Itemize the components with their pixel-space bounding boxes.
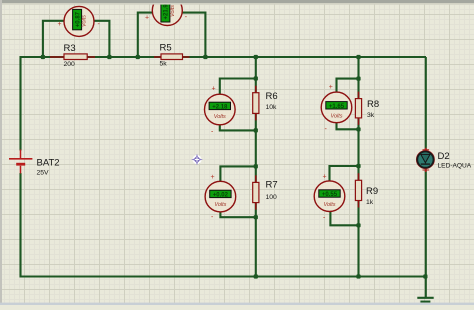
wire voltmeter M1 left terminal xyxy=(43,21,65,57)
resistor R9 xyxy=(355,173,378,207)
svg-text:Volts: Volts xyxy=(170,5,176,17)
wire voltmeter M5 top terminal xyxy=(337,79,359,93)
wire voltmeter M3 top terminal xyxy=(220,79,256,96)
junction R9 bottom node at (358.5,225.3) xyxy=(356,223,360,227)
wire voltmeter M4 top terminal xyxy=(220,166,255,182)
wire bottom rail xyxy=(21,275,426,277)
voltmeter M6 across R9 xyxy=(314,174,345,222)
svg-text:+2.18: +2.18 xyxy=(212,104,228,110)
svg-text:+21.9: +21.9 xyxy=(164,4,170,20)
svg-text:+1.65: +1.65 xyxy=(329,104,345,110)
wire top rail xyxy=(21,56,427,58)
svg-text:+: + xyxy=(211,174,215,181)
svg-text:Volts: Volts xyxy=(214,202,226,208)
svg-text:+: + xyxy=(212,86,216,93)
wire voltmeter M6 top terminal xyxy=(330,166,359,182)
junction top rail / R8 branch at (358.5,57) xyxy=(356,55,360,59)
LED D2 xyxy=(416,148,471,172)
wire R6 R7 column xyxy=(255,57,257,277)
svg-text:R5: R5 xyxy=(160,43,172,54)
svg-text:+0.02: +0.02 xyxy=(213,192,229,198)
svg-text:LED-AQUA: LED-AQUA xyxy=(438,162,472,169)
wire voltmeter M5 bottom terminal xyxy=(337,122,359,129)
svg-text:+0.55: +0.55 xyxy=(322,192,338,198)
voltmeter M1 across R3 xyxy=(58,6,101,36)
junction bottom rail / R9 branch at (358.5,276.5) xyxy=(356,274,360,278)
svg-text:1k: 1k xyxy=(366,199,374,206)
resistor R6 xyxy=(253,86,278,121)
wire battery column xyxy=(19,56,21,278)
junction top rail / R6 branch at (255.8,57) xyxy=(254,55,258,59)
junction R7 bottom node at (255.8,217.2) xyxy=(254,215,258,219)
svg-text:Volts: Volts xyxy=(82,15,88,27)
wire voltmeter M2 right terminal xyxy=(183,13,206,57)
voltmeter M5 across R8 xyxy=(321,84,352,133)
wire LED column xyxy=(425,57,427,298)
svg-text:R8: R8 xyxy=(367,99,379,110)
svg-text:Volts: Volts xyxy=(214,114,226,120)
svg-text:Volts: Volts xyxy=(330,113,342,119)
junction top rail / M2 left at (137.8,57) xyxy=(136,55,140,59)
svg-text:R9: R9 xyxy=(366,186,378,197)
resistor R3 xyxy=(50,43,95,68)
junction top rail / M1 right at (109.4,57) xyxy=(107,55,111,59)
voltmeter M2 across R5 xyxy=(145,0,188,26)
window edge bottom xyxy=(0,303,474,305)
svg-text:200: 200 xyxy=(64,61,76,68)
svg-text:25V: 25V xyxy=(37,170,50,177)
junction top rail / M1 left at (42.9,57) xyxy=(41,55,45,59)
wire R8 R9 column xyxy=(357,57,359,277)
svg-text:100: 100 xyxy=(266,194,278,201)
window edge left xyxy=(0,0,2,305)
svg-text:BAT2: BAT2 xyxy=(37,158,60,169)
resistor R8 xyxy=(355,92,379,125)
junction R8 top node at (358.5,78.6) xyxy=(356,77,360,81)
ground xyxy=(417,298,433,305)
wire voltmeter M2 left terminal xyxy=(138,13,153,57)
resistor R7 xyxy=(253,175,278,209)
junction bottom rail / LED branch at (425.5,276.5) xyxy=(423,274,427,278)
junction R8 bottom node at (358.5,129.3) xyxy=(356,127,360,131)
wire voltmeter M4 bottom terminal xyxy=(220,211,255,217)
svg-text:+: + xyxy=(323,174,327,181)
svg-text:10k: 10k xyxy=(266,104,278,111)
svg-text:+: + xyxy=(58,21,62,28)
svg-text:3k: 3k xyxy=(367,112,375,119)
wire voltmeter M6 bottom terminal xyxy=(330,211,358,225)
junction R6 top node at (255.8,78.5) xyxy=(254,76,258,80)
junction top rail / M2 right at (205.4,57) xyxy=(203,55,207,59)
window edge top xyxy=(0,0,474,3)
svg-text:+: + xyxy=(329,84,333,91)
junction R6 bottom node at (255.8,130.4) xyxy=(254,128,258,132)
svg-text:R7: R7 xyxy=(266,179,278,190)
junction bottom rail / R7 branch at (255.8,276.5) xyxy=(254,274,258,278)
origin marker xyxy=(191,154,203,166)
svg-text:D2: D2 xyxy=(438,151,450,162)
svg-text:+0.87: +0.87 xyxy=(75,11,81,27)
svg-text:R6: R6 xyxy=(266,91,278,102)
wire voltmeter M1 right terminal xyxy=(94,21,110,57)
svg-text:5k: 5k xyxy=(160,61,168,68)
junction R9 top node at (358.5,166) xyxy=(356,164,360,168)
junction R7 top node at (255.8,166.4) xyxy=(254,164,258,168)
voltmeter M3 across R6 xyxy=(205,86,236,136)
svg-text:+: + xyxy=(145,15,149,22)
resistor R5 xyxy=(154,43,190,68)
voltmeter M4 across R7 xyxy=(205,174,236,221)
svg-text:Volts: Volts xyxy=(323,202,335,208)
svg-text:R3: R3 xyxy=(64,43,76,54)
battery BAT2 xyxy=(9,150,60,177)
wire voltmeter M3 bottom terminal xyxy=(220,124,256,130)
